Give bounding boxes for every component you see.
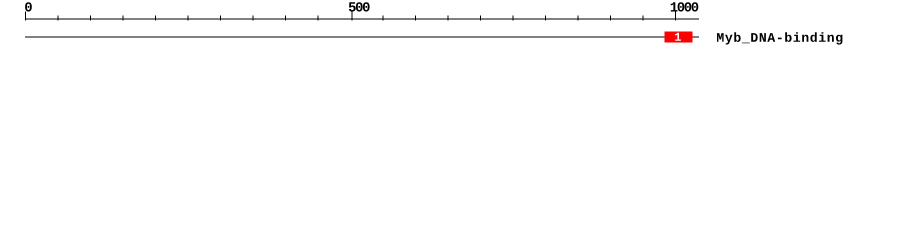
minor tick 400 — [285, 16, 286, 21]
minor tick 200 — [155, 16, 156, 21]
minor tick 950 — [643, 16, 644, 21]
ruler scale label 1000 — [671, 2, 699, 11]
minor tick 650 — [448, 16, 449, 21]
domain box start label 1 — [675, 33, 681, 41]
minor tick 850 — [578, 16, 579, 21]
minor tick 550 — [383, 16, 384, 21]
major tick 0 — [25, 12, 26, 21]
domain box Myb_DNA-binding — [665, 32, 693, 43]
minor tick 450 — [318, 16, 319, 21]
sequence line — [25, 37, 699, 38]
major tick 500 — [352, 12, 353, 21]
minor tick 100 — [90, 16, 91, 21]
ruler scale label 500 — [349, 2, 370, 11]
minor tick 300 — [220, 16, 221, 21]
minor tick 350 — [253, 16, 254, 21]
ruler baseline — [25, 19, 699, 20]
domain name label Myb_DNA-binding — [717, 32, 842, 44]
minor tick 250 — [188, 16, 189, 21]
minor tick 750 — [513, 16, 514, 21]
minor tick 150 — [123, 16, 124, 21]
minor tick 800 — [545, 16, 546, 21]
minor tick 600 — [415, 16, 416, 21]
major tick 1000 — [675, 12, 676, 21]
minor tick 50 — [58, 16, 59, 21]
ruler scale label 0 — [25, 2, 32, 11]
minor tick 900 — [610, 16, 611, 21]
minor tick 700 — [480, 16, 481, 21]
